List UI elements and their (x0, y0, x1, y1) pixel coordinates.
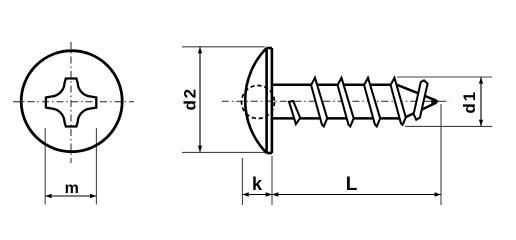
svg-text:L: L (346, 174, 358, 195)
svg-text:k: k (252, 174, 263, 194)
svg-text:m: m (65, 180, 79, 197)
svg-text:d2: d2 (181, 87, 200, 110)
svg-text:d1: d1 (460, 90, 479, 113)
